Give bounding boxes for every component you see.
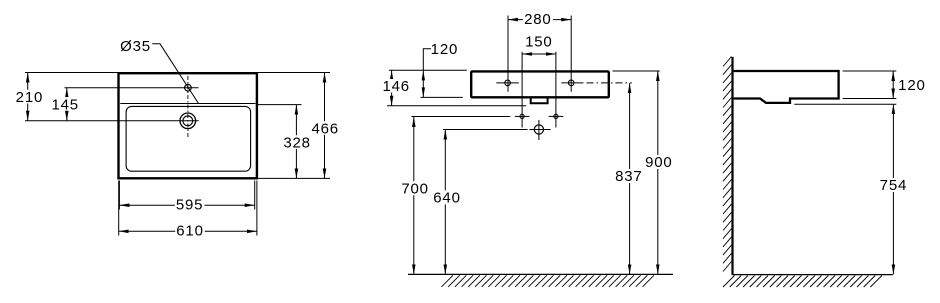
washbasin profile (side) bbox=[734, 71, 839, 103]
plan centerline (dash-dot) bbox=[187, 76, 189, 139]
dimension 328 bbox=[282, 105, 312, 179]
svg-text:150: 150 bbox=[525, 33, 552, 50]
dimension 700 bbox=[400, 117, 430, 274]
svg-text:328: 328 bbox=[283, 134, 310, 151]
dimension 640 bbox=[432, 130, 462, 275]
lower hole tick left bbox=[515, 115, 530, 117]
drain outlet (front) bbox=[534, 125, 543, 134]
dimension 466 extension (top) bbox=[256, 72, 330, 74]
leader line Ø35 bbox=[152, 44, 198, 104]
svg-text:754: 754 bbox=[880, 177, 907, 194]
boss bottom extension line (left) bbox=[387, 105, 526, 107]
drain level extension line bbox=[443, 129, 528, 131]
120 bottom extension line (side) bbox=[843, 98, 897, 100]
lower fixing hole left bbox=[520, 114, 524, 118]
svg-text:700: 700 bbox=[401, 180, 428, 197]
upper hole tick right bbox=[561, 82, 583, 84]
dimension 595 bbox=[119, 197, 254, 214]
dimension 120 (side) bbox=[893, 71, 925, 99]
svg-text:Ø35: Ø35 bbox=[120, 38, 151, 55]
drain outer circle bbox=[180, 113, 196, 129]
dimension 280 bbox=[508, 11, 571, 28]
dimension 280 extension lines bbox=[507, 16, 509, 92]
basin bowl (plan, rounded) bbox=[126, 106, 251, 171]
dimension 328 extension (top) bbox=[256, 104, 301, 106]
svg-text:120: 120 bbox=[431, 41, 458, 58]
upper fixing hole right bbox=[568, 80, 574, 86]
dimension 900 bbox=[644, 71, 674, 274]
svg-text:610: 610 bbox=[176, 223, 203, 240]
dimension 595 extension lines bbox=[118, 181, 120, 210]
svg-text:466: 466 bbox=[311, 120, 338, 137]
drain outlet tick vertical bbox=[538, 120, 540, 140]
svg-text:640: 640 bbox=[433, 190, 460, 207]
dimension 150 bbox=[522, 33, 556, 54]
lower hole tick right bbox=[549, 115, 564, 117]
lower fixing hole right bbox=[554, 114, 558, 118]
svg-text:120: 120 bbox=[898, 77, 925, 94]
drain inner circle bbox=[183, 116, 193, 126]
washbasin front panel bbox=[471, 71, 609, 97]
ground hatching (side view) bbox=[723, 276, 882, 288]
boss bottom extension line (side) bbox=[794, 103, 896, 105]
drain boss (front) bbox=[531, 98, 548, 103]
dimension 150 extension lines bbox=[521, 52, 523, 128]
upper hole tick left bbox=[496, 82, 519, 84]
dimension 837 bbox=[615, 83, 644, 274]
faucet level extension line bbox=[65, 87, 199, 89]
rim top extension line (left) bbox=[389, 69, 467, 71]
top edge extension line (left) bbox=[25, 72, 119, 74]
wall hatching bbox=[723, 57, 732, 272]
120 top extension line (side) bbox=[843, 70, 897, 72]
svg-text:837: 837 bbox=[615, 168, 642, 185]
ground line (front view) bbox=[408, 273, 673, 275]
dimension 466 bbox=[311, 73, 341, 179]
svg-text:595: 595 bbox=[176, 197, 203, 214]
dimension 120 (front) bbox=[422, 41, 459, 97]
svg-text:146: 146 bbox=[382, 78, 409, 95]
ground line (side view) bbox=[733, 274, 893, 276]
dimension 610 bbox=[119, 223, 257, 240]
ground hatching (front view) bbox=[442, 275, 655, 287]
svg-text:280: 280 bbox=[524, 11, 551, 28]
wall line bbox=[731, 57, 733, 275]
dimension 754 bbox=[879, 104, 908, 274]
deck line (plan) bbox=[120, 103, 255, 105]
panel bottom extension line bbox=[421, 96, 463, 98]
dimension 145 bbox=[51, 88, 79, 121]
dimension 610 extension lines bbox=[118, 181, 120, 236]
upper fixing hole left bbox=[505, 80, 511, 86]
lower holes extension line bbox=[412, 116, 511, 118]
dimension 210 bbox=[15, 73, 43, 121]
shared bottom extension line (328/466) bbox=[256, 177, 330, 179]
washbasin outer rim (plan) bbox=[119, 73, 257, 178]
drain outlet tick horizontal bbox=[529, 129, 550, 131]
rim top extension line (right) bbox=[613, 70, 660, 72]
drain level extension line bbox=[25, 120, 199, 122]
dimension 146 bbox=[382, 70, 409, 106]
svg-text:900: 900 bbox=[645, 154, 672, 171]
faucet hole bbox=[185, 84, 192, 91]
svg-text:210: 210 bbox=[16, 89, 43, 106]
svg-text:145: 145 bbox=[51, 96, 78, 113]
axis dash line to 837 bbox=[587, 82, 632, 84]
